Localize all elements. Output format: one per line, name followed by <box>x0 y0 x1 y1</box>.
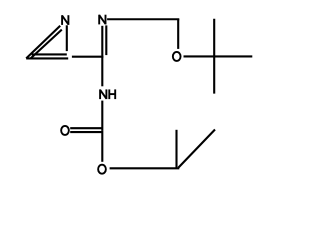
bond ring C3 to central carbon <box>72 56 104 58</box>
bond ring C2-C3 bottom main line <box>26 57 68 59</box>
bond ring C2=N second line (inner diagonal) <box>31 30 62 58</box>
atom label N (ring nitrogen) <box>62 15 68 25</box>
bond O-C(CH3)3 horizontal with right methyl <box>184 55 253 57</box>
bond ring C2=N main line (diagonal) <box>26 26 60 59</box>
bond vertical methyl at bottom right <box>175 130 177 168</box>
bond C=N amidine main vertical (continues to NH) <box>101 26 103 87</box>
atom label O (ester oxygen) <box>98 165 106 174</box>
bond C=N amidine second line <box>105 25 107 55</box>
bond C=O upper line <box>70 127 102 129</box>
bond ring N-C3 vertical <box>66 25 68 51</box>
bond CH2-O vertical <box>177 19 179 49</box>
bond N-CH2 top horizontal <box>107 18 179 20</box>
bond ester O to CH vertex horizontal <box>110 167 180 169</box>
atom label O (ether oxygen) <box>173 52 181 61</box>
bond ring bottom second line (inner) <box>32 53 67 55</box>
bond carbonyl C to ester O <box>101 130 103 161</box>
bond tert-butyl vertical methyls <box>213 19 215 94</box>
atom label O (carbonyl oxygen) <box>61 126 69 135</box>
bond NH to carbonyl carbon <box>101 101 103 131</box>
atom label N (amidine nitrogen) <box>99 15 105 25</box>
atom label NH (amide nitrogen) <box>100 89 115 99</box>
bond diagonal methyl at bottom right <box>178 130 215 168</box>
bond C=O lower line <box>70 131 102 133</box>
